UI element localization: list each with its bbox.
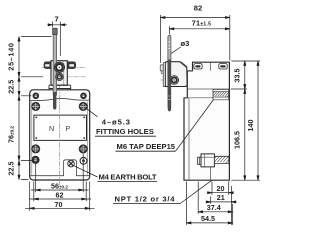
svg-text:22.5: 22.5 xyxy=(6,80,15,94)
rod lever side xyxy=(168,35,171,60)
M4 earth bolt xyxy=(68,160,75,167)
svg-text:NPT 1/2 or 3/4: NPT 1/2 or 3/4 xyxy=(115,194,176,203)
body top plate seam xyxy=(30,98,90,100)
left dim arrows xyxy=(18,37,20,180)
svg-text:37.4: 37.4 xyxy=(207,203,221,212)
svg-text:4–ø5.3: 4–ø5.3 xyxy=(102,117,131,126)
fitting screw top-left xyxy=(32,102,40,110)
svg-text:P: P xyxy=(65,124,70,133)
svg-text:70: 70 xyxy=(55,200,63,209)
dim 70 line xyxy=(25,207,95,209)
dim 7 line xyxy=(48,24,68,26)
head front block xyxy=(51,61,67,86)
dim 140 line xyxy=(257,61,259,180)
bottom right dims extension lines xyxy=(187,182,233,225)
cover plate N P xyxy=(34,115,87,140)
svg-text:M6 TAP DEEP15: M6 TAP DEEP15 xyxy=(117,142,176,151)
dim 82 extension + line xyxy=(161,15,230,63)
ear hole bottom-left xyxy=(32,156,39,163)
svg-text:M4 EARTH BOLT: M4 EARTH BOLT xyxy=(99,172,157,181)
dim 20 xyxy=(212,192,229,194)
side head block xyxy=(165,62,187,87)
right dims extension lines xyxy=(231,61,260,180)
svg-text:ø3: ø3 xyxy=(181,39,190,48)
lever side plate xyxy=(163,63,165,87)
conduit lower seam xyxy=(209,167,211,180)
svg-text:N: N xyxy=(49,124,54,133)
conduit washer xyxy=(198,157,201,164)
leader fitting holes xyxy=(86,108,97,117)
svg-text:20: 20 xyxy=(217,184,225,193)
head small shaft circle xyxy=(56,73,63,80)
ear hole top-right xyxy=(81,93,87,99)
svg-text:FITTING HOLES: FITTING HOLES xyxy=(96,127,154,136)
M4 earth bolt notch plate xyxy=(64,160,77,176)
terminal tab right on top xyxy=(219,64,227,69)
side head seam xyxy=(182,62,188,67)
fitting screw bottom-left xyxy=(32,145,40,153)
svg-text:82: 82 xyxy=(194,4,202,13)
leader φ3 xyxy=(171,47,181,53)
rod lever front xyxy=(53,32,56,95)
side body seams xyxy=(184,71,229,180)
dim 71 extension + line xyxy=(168,26,170,34)
terminal tab left on top xyxy=(194,64,202,69)
head left tab xyxy=(44,62,51,69)
head base plate xyxy=(49,85,71,90)
body side wall seams xyxy=(32,102,88,175)
svg-text:140: 140 xyxy=(246,120,255,132)
svg-text:21: 21 xyxy=(217,193,225,202)
dim 56 line xyxy=(31,189,89,191)
svg-text:33.5: 33.5 xyxy=(232,69,241,83)
side boss nut xyxy=(160,65,163,71)
wire: front head centerline horizontal xyxy=(42,66,86,68)
wire: front centerline vertical xyxy=(58,86,60,186)
fitting screw bottom-right xyxy=(79,145,87,153)
svg-text:25–140: 25–140 xyxy=(6,42,15,70)
svg-text:106.5: 106.5 xyxy=(232,131,241,149)
body front outline xyxy=(30,90,90,180)
dim 37.4 xyxy=(198,211,233,213)
M6 tap hatched hole xyxy=(213,89,229,99)
wire: front small-shaft centerline xyxy=(66,76,86,78)
body bottom plate seam xyxy=(30,175,90,177)
body top seam between tabs xyxy=(209,62,211,70)
dim 62 line xyxy=(29,198,91,200)
head right tab xyxy=(67,62,75,69)
ear hole top-left xyxy=(33,93,39,99)
svg-text:22.5: 22.5 xyxy=(6,162,15,176)
side pivot screw xyxy=(170,76,179,85)
head big shaft circle xyxy=(54,62,64,72)
svg-text:7: 7 xyxy=(54,15,58,24)
bottom dim extension lines xyxy=(30,154,90,211)
leader NPT xyxy=(180,180,212,203)
left dim line xyxy=(18,37,20,180)
dim 33.5 / 106.5 line xyxy=(244,61,246,180)
fitting screw top-right xyxy=(79,102,87,110)
dim 21 xyxy=(211,201,232,203)
dim 54.5 xyxy=(187,222,233,224)
dim 7 extension lines xyxy=(53,22,61,57)
svg-text:62: 62 xyxy=(56,191,64,200)
conduit block xyxy=(201,154,214,167)
conduit thread hatched xyxy=(214,156,228,163)
left dim extension lines xyxy=(21,37,52,180)
leader M4 earth bolt xyxy=(74,166,98,177)
side pivot centerline xyxy=(161,79,193,81)
svg-text:54.5: 54.5 xyxy=(201,214,215,223)
side body block xyxy=(184,62,229,180)
ear hole bottom-right xyxy=(80,157,87,164)
leader M6 tap xyxy=(176,100,214,152)
head block seam xyxy=(63,61,65,86)
